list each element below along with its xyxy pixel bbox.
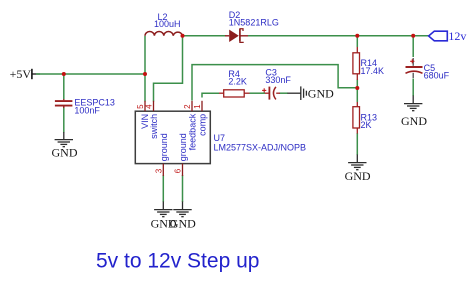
svg-text:GND: GND bbox=[52, 145, 78, 159]
pin 4 stub bbox=[153, 101, 155, 111]
capacitor C5 bbox=[406, 58, 423, 78]
ground sideways at C3 bbox=[288, 86, 307, 100]
wire C5 top bbox=[412, 36, 414, 57]
junction node R14 top bbox=[355, 34, 359, 38]
junction node rail-L2 bbox=[143, 72, 147, 76]
wire C1 branch lower bbox=[63, 107, 65, 133]
wire L2 left lead bbox=[144, 36, 146, 74]
svg-text:switch: switch bbox=[149, 114, 159, 139]
capacitor EESPC13 bbox=[55, 99, 73, 108]
resistor R14 bbox=[353, 47, 360, 80]
junction node L2-D2 bbox=[181, 34, 185, 38]
svg-text:2.2K: 2.2K bbox=[228, 77, 247, 87]
wire pin5 vertical bbox=[144, 74, 146, 102]
svg-text:100uH: 100uH bbox=[154, 19, 181, 29]
resistor R13 bbox=[353, 102, 360, 134]
wire R14 bottom to junction bbox=[356, 80, 358, 89]
pin 5 stub bbox=[144, 101, 146, 111]
C3 plus sign bbox=[262, 88, 266, 92]
svg-text:+5V: +5V bbox=[10, 67, 32, 81]
diode D2 bbox=[225, 28, 248, 42]
junction node C5 top bbox=[411, 34, 415, 38]
pin 6 stub bbox=[182, 164, 184, 176]
svg-text:feedback: feedback bbox=[188, 113, 198, 150]
svg-text:2: 2 bbox=[183, 104, 192, 109]
svg-text:ground: ground bbox=[159, 133, 169, 161]
svg-text:100nF: 100nF bbox=[74, 105, 100, 115]
wire pin3 to gnd bbox=[162, 175, 164, 202]
power flag +5V bbox=[32, 69, 40, 79]
wire R14 top bbox=[356, 36, 358, 47]
pin 1 stub bbox=[201, 101, 203, 111]
hierarchical label 12v bbox=[429, 31, 448, 41]
svg-text:comp: comp bbox=[198, 114, 208, 136]
svg-text:GND: GND bbox=[170, 217, 196, 231]
svg-text:2K: 2K bbox=[361, 120, 372, 130]
capacitor C3 bbox=[265, 87, 280, 100]
svg-text:3: 3 bbox=[155, 168, 164, 173]
svg-text:GND: GND bbox=[345, 169, 371, 183]
svg-text:680uF: 680uF bbox=[424, 71, 450, 81]
svg-text:6: 6 bbox=[174, 168, 183, 173]
junction node R14-R13 bbox=[355, 86, 359, 90]
svg-text:12v: 12v bbox=[448, 29, 466, 43]
wire pin6 to gnd bbox=[182, 175, 184, 202]
svg-text:GND: GND bbox=[308, 87, 334, 101]
junction node rail-C1 bbox=[62, 72, 66, 76]
svg-text:LM2577SX-ADJ/NOPB: LM2577SX-ADJ/NOPB bbox=[214, 142, 307, 152]
IC U7 box bbox=[135, 111, 210, 163]
svg-text:ground: ground bbox=[178, 133, 188, 161]
wire R4 to C3 bbox=[250, 92, 266, 94]
wire C3 to gnd bbox=[280, 92, 289, 94]
wire comp pin1 to R4 bbox=[202, 93, 219, 97]
svg-text:4: 4 bbox=[145, 104, 154, 109]
svg-text:17.4K: 17.4K bbox=[361, 66, 385, 76]
ground below EESPC13 bbox=[55, 132, 73, 147]
wire C1 branch upper bbox=[63, 74, 65, 100]
ground below pin6 bbox=[173, 202, 191, 217]
svg-text:1N5821RLG: 1N5821RLG bbox=[229, 17, 279, 27]
wire top rail (diode to 12v) bbox=[248, 35, 429, 37]
wire R13 top bbox=[356, 88, 358, 102]
pin 2 stub bbox=[191, 101, 193, 111]
ground below C5 bbox=[404, 96, 422, 111]
wire feedback pin2 path bbox=[192, 65, 357, 101]
wire R13 bottom bbox=[356, 133, 358, 155]
wire L2 to diode bbox=[183, 35, 226, 37]
C5 plus sign bbox=[410, 59, 414, 63]
ground below R13 bbox=[348, 155, 366, 170]
pin 3 stub bbox=[162, 164, 164, 176]
svg-text:330nF: 330nF bbox=[265, 75, 291, 85]
wire +5V rail bbox=[36, 73, 145, 75]
svg-text:GND: GND bbox=[401, 114, 427, 128]
resistor R4 bbox=[219, 90, 250, 97]
svg-text:5v to 12v Step up: 5v to 12v Step up bbox=[96, 250, 259, 273]
ground below pin3 bbox=[154, 202, 172, 217]
inductor L2 bbox=[145, 31, 183, 35]
wire C5 bottom bbox=[412, 79, 414, 97]
svg-text:1: 1 bbox=[193, 104, 202, 109]
wire pin4 path bbox=[154, 36, 183, 102]
